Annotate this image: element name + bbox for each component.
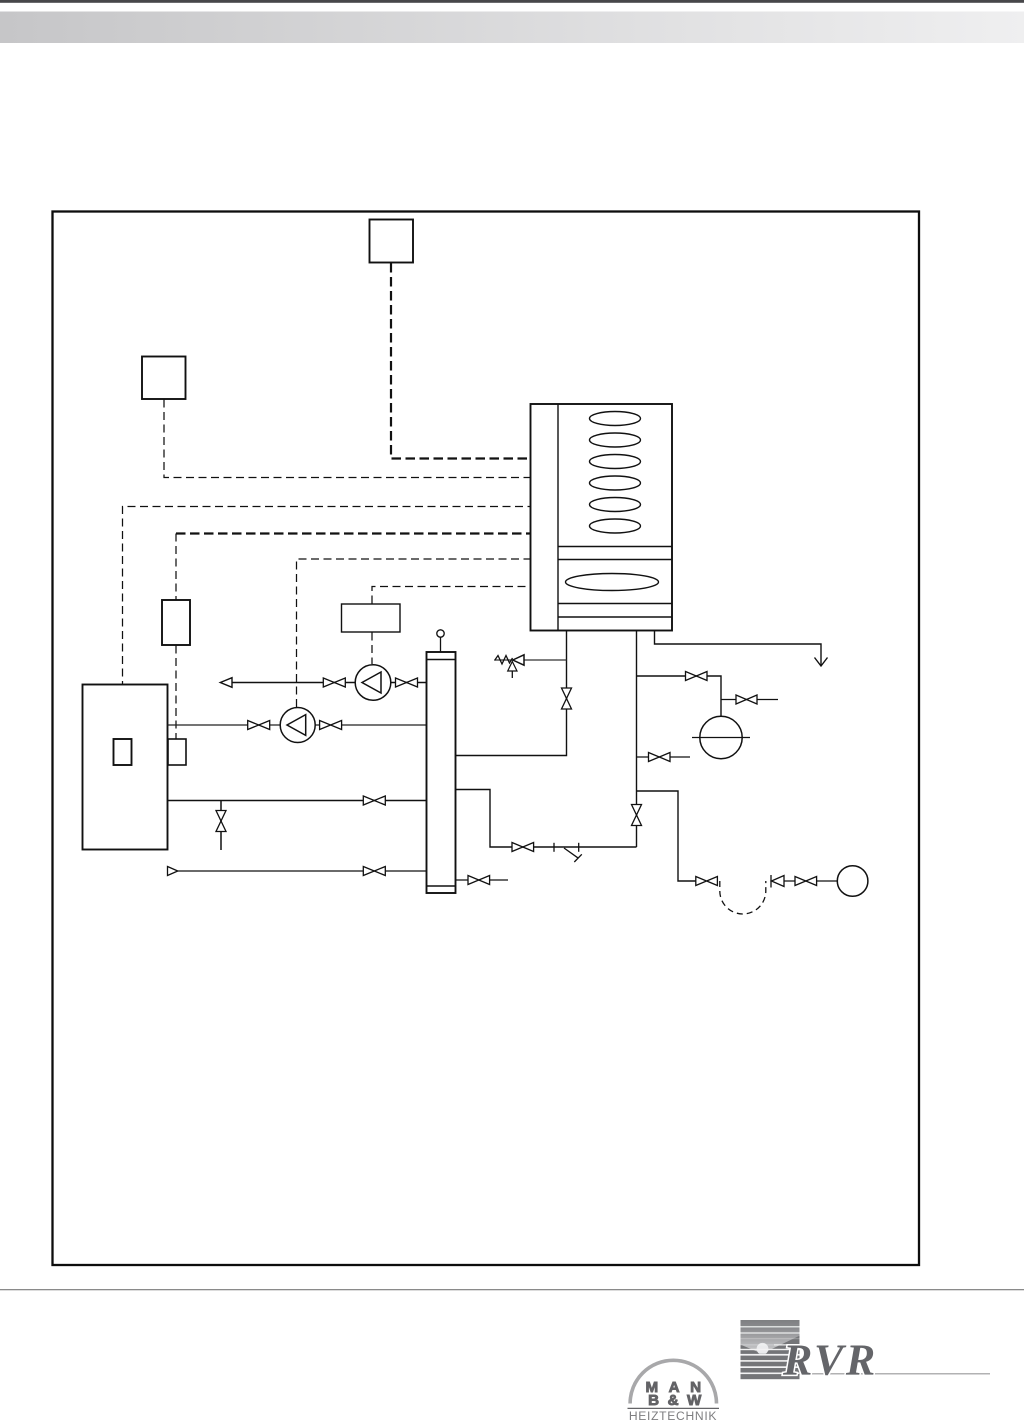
separator bottom cap line [427,885,456,887]
pipe safety valve line [495,659,567,661]
valve V5 vertical on flow pipe [562,688,572,709]
safety valve outlet stem [511,671,513,678]
wire dashed cabinet to boiler [123,507,531,740]
RVR white stripe b [741,1332,800,1333]
boiler tube ellipse 1 [590,412,641,426]
safety valve body [513,655,524,665]
RVR white stripe h [741,1366,800,1368]
siphon dashed U [720,881,766,914]
RVR mountain right [762,1336,800,1354]
pump P1 [355,665,391,701]
arrow supply out [220,678,232,688]
safety valve outlet triangle [508,662,517,672]
schematic frame [53,212,920,1266]
hose coupling cone [772,876,785,887]
separator vent circle [437,630,444,637]
pipe expansion riser [636,631,638,848]
wire dashed B3 riser [175,534,177,601]
svg-text:HEIZTECHNIK: HEIZTECHNIK [629,1409,717,1420]
RVR logo square sky [741,1320,800,1354]
valve V11 vertical on expansion riser [632,805,642,826]
valve V1 pump P1 suction [323,678,345,687]
svg-text:RVR: RVR [782,1336,878,1385]
pump P1 impeller triangle [362,672,381,693]
valve V16 line4 [363,867,385,876]
separator top cap line [427,659,456,661]
pipe pump P2 return line [168,724,427,726]
boiler section line 1 [558,546,672,548]
cabinet inner module [114,739,132,765]
pipe line4 bottom feed [178,870,427,872]
hydraulic separator [427,652,456,893]
valve V4 pump P2 discharge [320,721,342,730]
pipe drain branch [637,756,691,758]
pipe line3 cabinet to separator [168,800,427,802]
stub with vertical valve V15 [220,801,222,851]
MAN BW base line [628,1407,720,1409]
box B2 sensor left [142,357,186,400]
hose coupling tick [770,875,772,888]
boiler body [531,404,673,631]
footer rule [0,1289,1024,1290]
box B1 sensor top [370,220,414,263]
wire dashed B4 to boiler [372,587,531,604]
valve V8 drain branch [649,753,671,762]
wire dashed B3 to side box [175,646,177,740]
RVR white stripe c [741,1338,800,1339]
wire dashed bold B3 bus to boiler [176,532,531,534]
wire dashed B1 to boiler [391,263,531,459]
RVR white stripe a [741,1326,800,1327]
arrow head flue [815,658,828,667]
valve V6 expansion branch [686,672,708,681]
boiler tube ellipse 3 [590,455,641,469]
box B4 pump controller [342,604,401,632]
pipe boiler flow down to separator [456,631,567,756]
box B3 [162,600,190,645]
valve V15 vertical [216,811,226,832]
safety valve spring [495,656,513,665]
boiler section line 3 [558,603,672,605]
arrow feed in [168,867,178,876]
boiler drum ellipse [566,574,659,591]
header gray bar [0,12,1024,44]
boiler section line 4 [558,616,672,618]
drain funnel circle [837,866,868,897]
boiler tube ellipse 4 [590,476,641,490]
wire dashed B4 to pump P1 [371,633,373,665]
valve V2 pump P1 discharge [396,678,418,687]
RVR white stripe e [741,1349,800,1350]
boiler section line 2 [558,559,672,561]
pump P2 impeller triangle [287,715,306,736]
RVR sun [757,1343,769,1355]
RVR white stripe g [741,1360,800,1362]
pump P2 [280,708,315,743]
svg-text:B&W: B&W [648,1392,710,1409]
wire dashed pump P2 to boiler [297,559,531,707]
expansion vessel membrane line [692,737,750,739]
boiler left panel line [557,404,559,631]
RVR white stripe i [741,1373,800,1375]
valve V10 drain line [795,877,817,886]
cabinet side module [168,739,186,765]
valve V12 return line [512,843,534,852]
valve V14 line3 [363,796,385,805]
valve V7 fill connection [736,695,757,704]
tick mark 2 return line [578,843,580,852]
boiler tube ellipse 6 [590,519,641,533]
valve V9 blowdown [696,877,718,886]
pipe pump P1 supply line [232,682,427,684]
separator vent stem [440,637,442,652]
RVR baseline rule [800,1373,991,1375]
top rule [0,0,1024,3]
boiler tube ellipse 5 [590,498,641,512]
wire dashed B2 to boiler [164,400,531,478]
RVR white stripe f [741,1354,800,1356]
MAN BW logo arch [630,1360,716,1403]
valve V13 separator drain [468,876,490,885]
pipe flue outlet with arrow [655,631,822,666]
pipe blowdown branch [637,791,696,881]
pipe fill connection [721,699,778,701]
expansion vessel [700,716,742,758]
drain symbol diagonal [564,848,582,862]
RVR white stripe d [741,1344,800,1345]
valve V3 pump P2 suction [248,721,270,730]
pipe to drain funnel [784,880,837,882]
pipe separator return to riser [456,790,637,848]
separator drain stub [456,879,509,881]
boiler tube ellipse 2 [590,433,641,447]
tick mark 1 return line [553,843,555,852]
control cabinet [83,685,168,850]
RVR mountain left [741,1345,763,1354]
pipe expansion branch [637,676,722,716]
RVR lower stripes block [741,1354,800,1379]
